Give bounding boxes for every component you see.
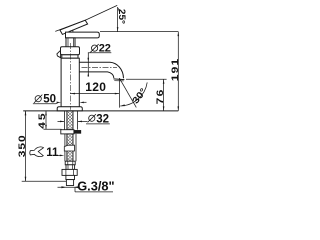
G38 arrows [61, 186, 66, 188]
30 arc arrow [120, 104, 125, 106]
45 [45, 111, 47, 116]
ferrule [66, 165, 75, 170]
191 [178, 32, 180, 36]
lever raised 25deg [60, 20, 88, 34]
25 top/bottom [117, 7, 120, 12]
120/30 ext vertical [118, 78, 120, 107]
centerline vertical [69, 43, 71, 110]
spout outlet face [114, 78, 125, 81]
350 dim [25, 111, 27, 181]
G38 dim line [58, 186, 78, 188]
centerline spout [82, 66, 118, 68]
25deg dim line [117, 7, 119, 32]
d32 dim line [58, 120, 65, 122]
shank threaded lower [67, 134, 73, 161]
d22 leader [88, 52, 111, 54]
11 arrow [60, 155, 65, 157]
thread nipple [66, 180, 73, 186]
191 dim line [177, 32, 179, 111]
counter line [23, 110, 178, 112]
hose outer lines below plate [64, 134, 66, 161]
washer plate [61, 130, 74, 134]
wrench icon [30, 147, 44, 157]
30 slant line [119, 78, 136, 107]
svg-text:25°: 25° [116, 9, 127, 24]
shank threaded upper [67, 111, 73, 130]
neck / cartridge [66, 38, 75, 47]
slant ref line (lever top edge extended) [55, 20, 85, 31]
76 dim line [163, 79, 165, 111]
base flange [57, 107, 82, 111]
svg-text:191: 191 [170, 58, 181, 82]
350 [25, 111, 27, 116]
svg-text:22: 22 [99, 43, 111, 55]
hex nut [62, 169, 77, 175]
bell top band [61, 47, 80, 55]
45 dim [45, 111, 47, 129]
11 leader [57, 154, 62, 156]
lever horizontal [66, 32, 100, 38]
d50 [57, 102, 62, 104]
120 [71, 93, 76, 95]
30 arc [120, 82, 147, 106]
svg-text:50: 50 [43, 94, 56, 106]
top horizontal ref line [100, 31, 178, 33]
svg-text:45: 45 [37, 111, 48, 128]
hole edges below counter [63, 111, 65, 130]
body [61, 58, 79, 107]
svg-text:11: 11 [46, 147, 59, 159]
hose fitting [65, 161, 75, 165]
d32 [60, 121, 65, 123]
d22 [88, 58, 90, 63]
svg-text:120: 120 [85, 80, 106, 94]
arrowheads [25, 7, 179, 189]
svg-text:32: 32 [96, 113, 109, 125]
outlet stub [66, 175, 75, 179]
bell lower ring [62, 55, 78, 58]
wrench flat notch [64, 145, 74, 151]
120 dim line [71, 93, 120, 95]
76 [163, 79, 165, 84]
svg-text:G.3/8": G.3/8" [77, 179, 114, 194]
svg-text:350: 350 [17, 134, 28, 157]
76 ext line [126, 78, 167, 80]
svg-text:76: 76 [155, 88, 166, 104]
G38 underline [75, 191, 113, 193]
spout [79, 62, 123, 78]
d50 leader [33, 103, 56, 105]
lever rear tab [57, 50, 61, 57]
